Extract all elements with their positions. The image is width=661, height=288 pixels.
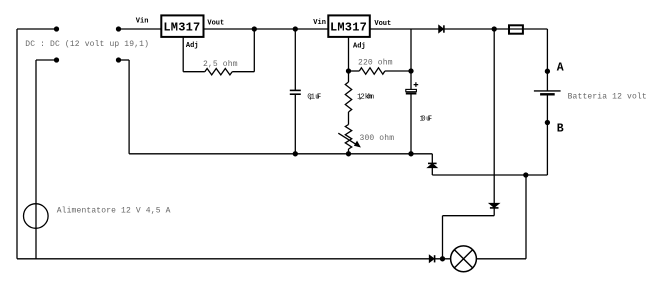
wire diode to fuse to corner (444, 28, 548, 30)
op-amp U1 regulator box (161, 15, 203, 37)
wire diode to lamp (435, 258, 451, 260)
wire U1 Adj drop (182, 37, 184, 72)
svg-text:Vin: Vin (313, 19, 326, 27)
wire mid rail (129, 153, 432, 155)
node dcdc output bottom (117, 58, 121, 62)
svg-text:Vin: Vin (136, 18, 149, 26)
wire battery negative rail (432, 174, 547, 176)
svg-text:300 ohm: 300 ohm (360, 134, 395, 143)
diode D3 down (493, 29, 495, 203)
diode D4 (430, 256, 434, 262)
wire left vertical (16, 29, 18, 259)
wire alimentatore vertical (35, 60, 37, 259)
wire lamp to right vertical (476, 258, 526, 260)
resistor R2 220 ohm (349, 70, 360, 72)
wire dcdc bottom out (119, 59, 130, 61)
svg-text:Vout: Vout (207, 19, 224, 27)
wire bottom rail (17, 258, 430, 260)
battery BT1 plates (534, 90, 561, 92)
wire U2 Adj drop (348, 37, 350, 71)
node R2 right junction (409, 69, 413, 73)
node top right junction (492, 27, 496, 31)
diode D1 (439, 26, 443, 33)
svg-text:Adj: Adj (353, 43, 366, 51)
svg-text:A: A (557, 61, 564, 74)
svg-text:Alimentatore 12 V 4,5 A: Alimentatore 12 V 4,5 A (57, 207, 171, 216)
op-amp U2 regulator box (328, 15, 370, 37)
node input bottom terminal (55, 58, 59, 62)
node C1 top junction (293, 27, 297, 31)
node lamp left junction (441, 257, 445, 261)
node U1 Vout junction (252, 27, 256, 31)
node C2 bottom junction (409, 152, 413, 156)
wire dcdc out to U1 Vin (119, 28, 162, 30)
node battery negative junction (524, 173, 528, 177)
node dcdc output top (117, 27, 121, 31)
node B (545, 121, 549, 125)
fuse F1 (509, 25, 523, 33)
svg-text:Vout: Vout (374, 20, 391, 28)
svg-text:Adj: Adj (186, 42, 199, 50)
wire D3 bottom left (443, 215, 495, 217)
wire U2 Vout to diode (370, 28, 439, 30)
diode D2 zener up (431, 154, 433, 163)
wire R1 up to Vout (253, 29, 255, 72)
lamp L1 (451, 246, 477, 272)
wire battery bottom (546, 94, 548, 175)
power source alimentatore circle (24, 204, 49, 229)
wire U1 Vout rail (204, 28, 329, 30)
resistor R3 1,2 kohm (348, 71, 350, 82)
wire right vertical (525, 175, 527, 259)
wire battery top drop (546, 29, 548, 91)
wire drop to lamp rail (442, 216, 444, 259)
resistor R1 2,5 ohm (183, 71, 205, 73)
svg-text:B: B (557, 123, 564, 136)
node C1 bottom junction (293, 152, 297, 156)
svg-text:LM317: LM317 (330, 20, 367, 34)
svg-text:2,5 ohm: 2,5 ohm (203, 60, 238, 69)
wire input bottom stub (36, 59, 57, 61)
wire left drop to mid rail (128, 60, 130, 154)
node A (545, 69, 549, 73)
capacitor C1 0,1uF (294, 29, 296, 90)
svg-text:LM317: LM317 (163, 20, 200, 34)
wire input top rail (17, 28, 57, 30)
capacitor C2 10uF electrolytic (410, 29, 412, 89)
svg-text:DC : DC (12 volt up 19,1): DC : DC (12 volt up 19,1) (25, 40, 149, 49)
resistor R4 300 ohm potentiometer (345, 125, 351, 150)
node U2 Adj junction (347, 69, 351, 73)
node input top terminal (55, 27, 59, 31)
svg-text:Batteria 12 volt: Batteria 12 volt (568, 92, 647, 101)
svg-text:220 ohm: 220 ohm (358, 59, 393, 68)
node R4 bottom junction (347, 152, 351, 156)
